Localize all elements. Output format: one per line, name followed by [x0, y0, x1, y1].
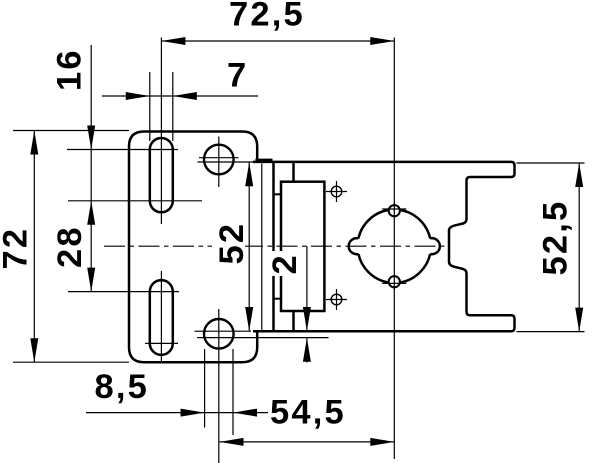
- svg-text:2: 2: [266, 253, 304, 274]
- svg-text:28: 28: [51, 225, 89, 268]
- svg-text:7: 7: [227, 57, 248, 95]
- svg-text:52,5: 52,5: [537, 200, 575, 276]
- svg-text:52: 52: [213, 222, 251, 265]
- svg-text:16: 16: [51, 48, 89, 91]
- svg-text:54,5: 54,5: [270, 394, 346, 432]
- svg-text:72,5: 72,5: [229, 0, 305, 34]
- svg-text:8,5: 8,5: [95, 368, 150, 406]
- svg-text:72: 72: [0, 227, 34, 270]
